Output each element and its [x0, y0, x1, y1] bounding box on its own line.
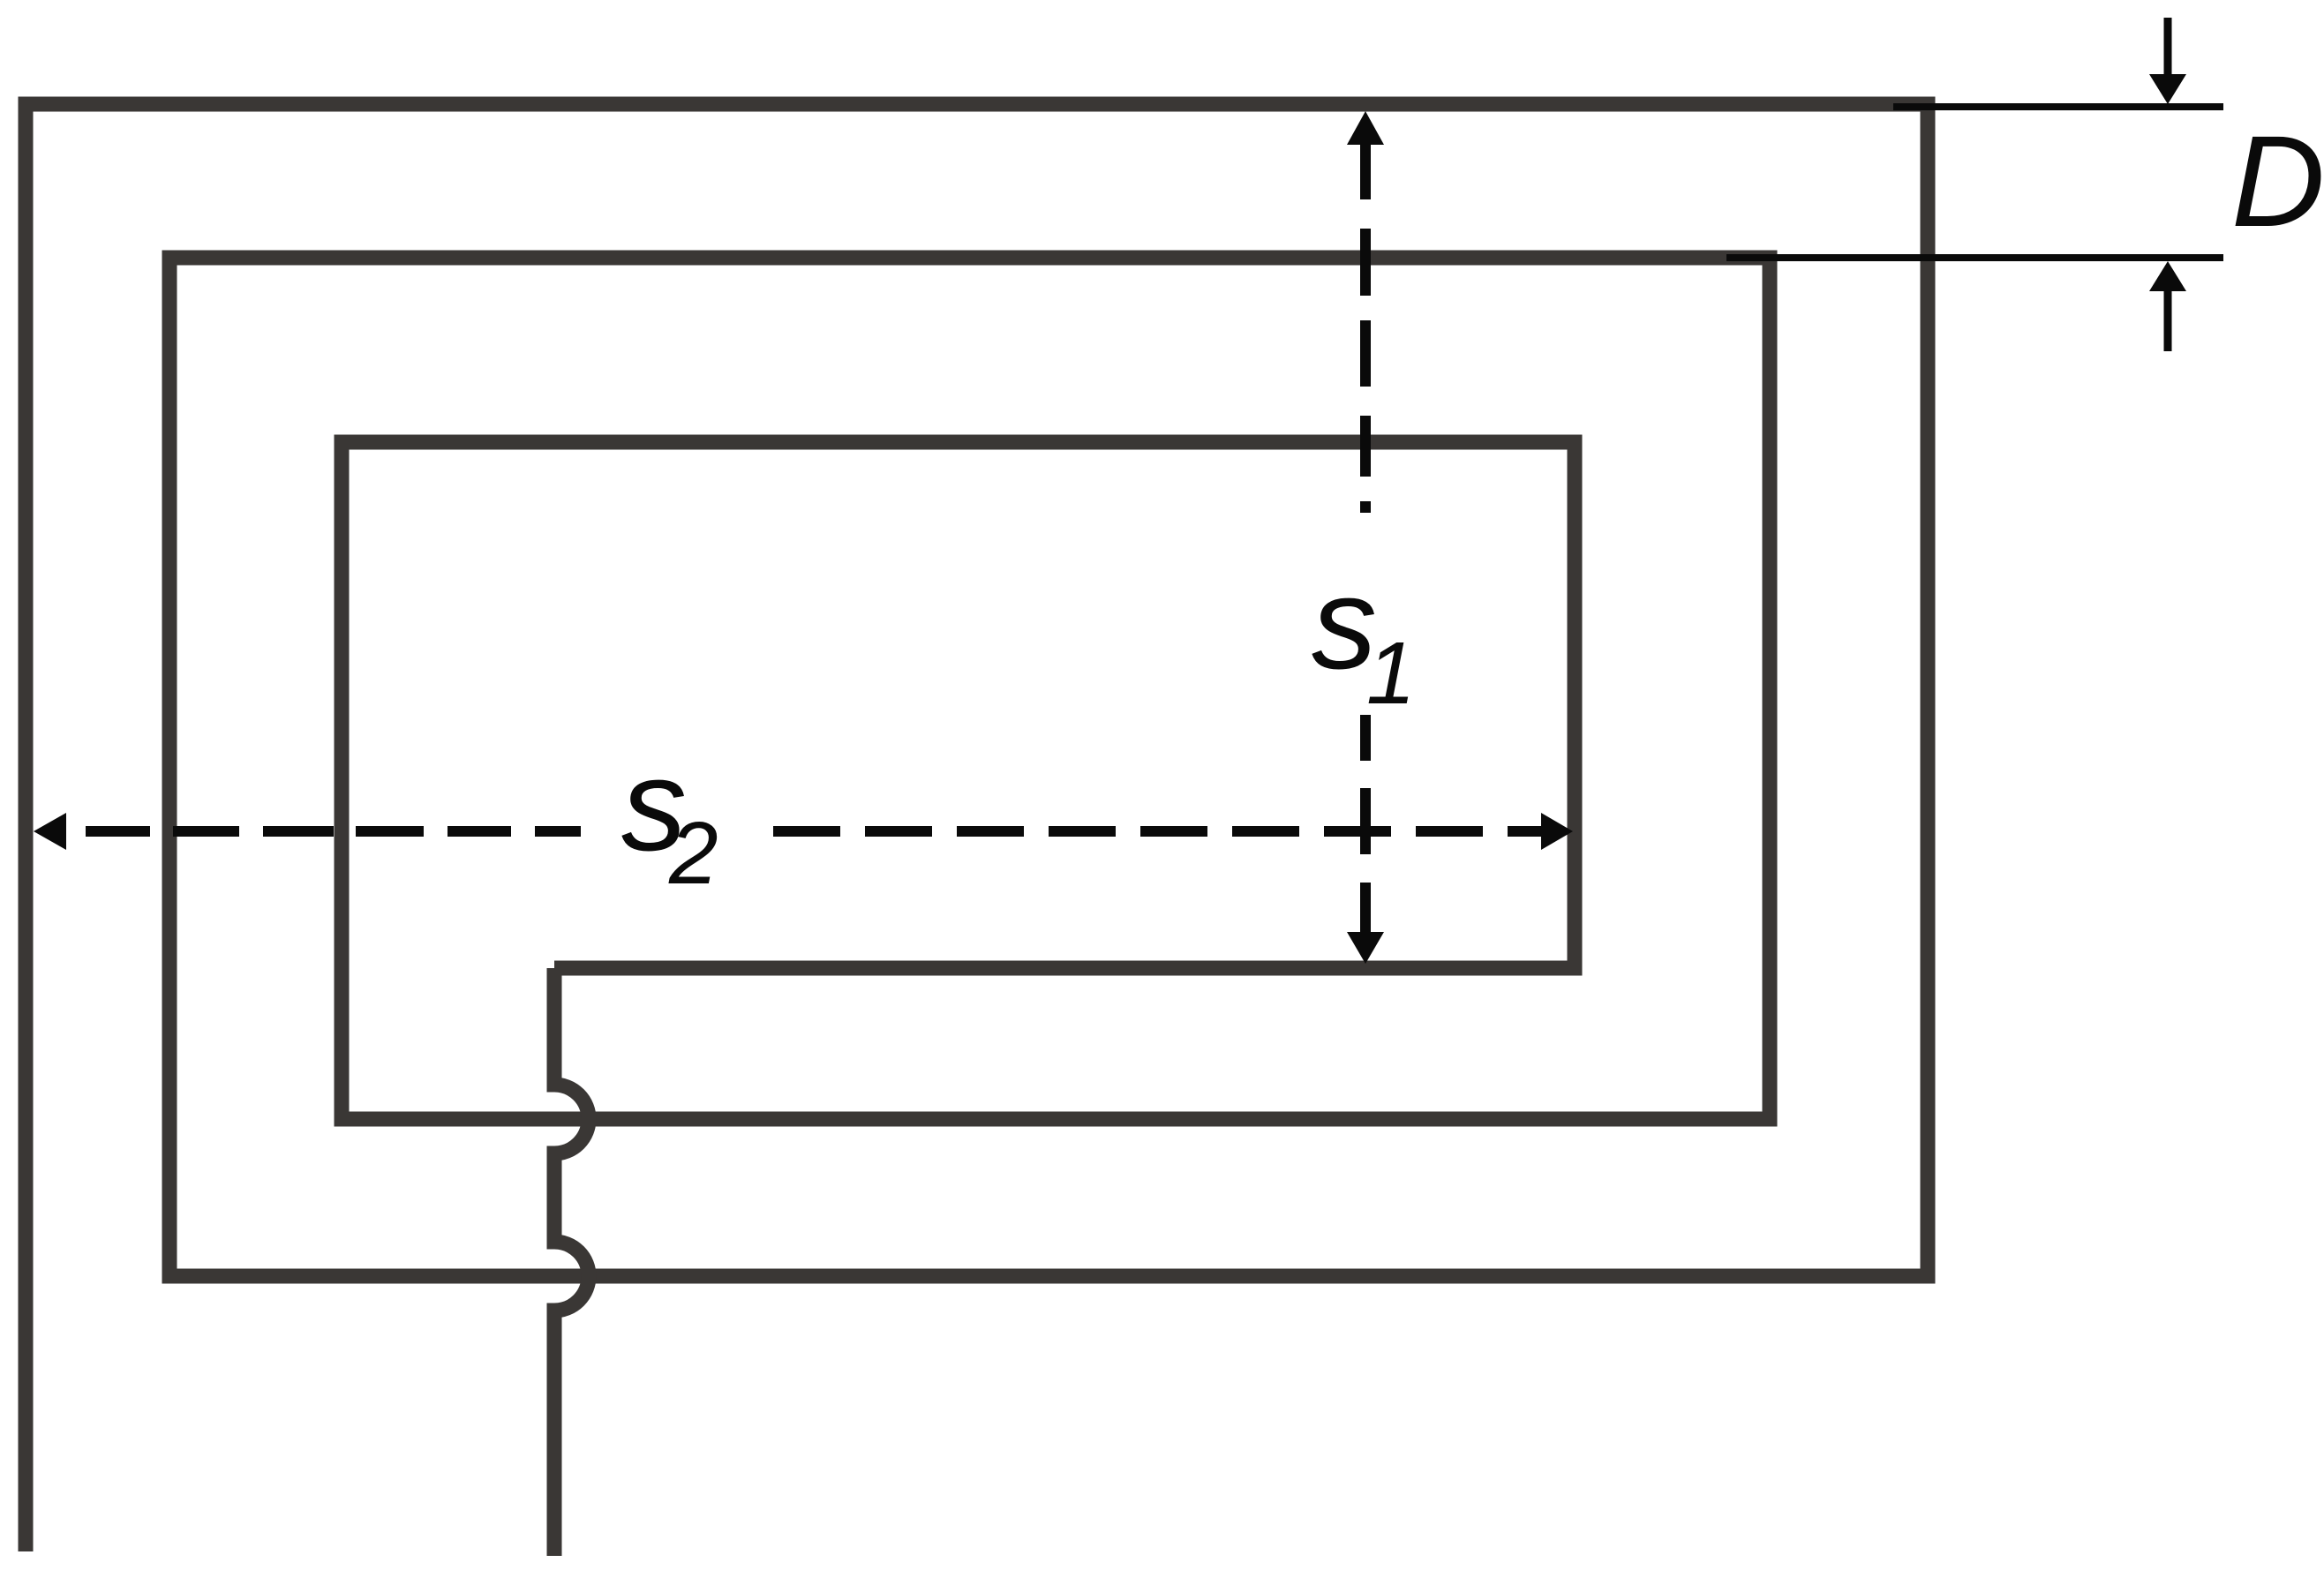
dimension s1: vertical dashed line — [1360, 144, 1371, 934]
dimension D: extension line at middle top edge — [1726, 254, 2223, 261]
svg-text:1: 1 — [1366, 624, 1416, 723]
s2 right arrowhead — [1541, 813, 1573, 850]
wire: coil L1 inner turn 3 (bottom, left, top, right sides) — [342, 442, 1575, 1119]
wire: inner lead of coil L1 with two crossover hops over turns 2 and 1 — [554, 968, 589, 1556]
dimension D: extension line at outer top edge — [1893, 103, 2223, 110]
dimension s2: horizontal dashed line — [86, 826, 1543, 837]
s1 up arrowhead — [1347, 111, 1384, 145]
wire: outer lead of coil L1 (bottom-left terminal) — [19, 794, 34, 1551]
wire: coil L1 outer turn 1 (left, top, right sides) — [26, 104, 1928, 1276]
s2 left arrowhead — [34, 813, 66, 850]
svg-text:D: D — [2231, 109, 2324, 254]
dimension D: up arrow — [2164, 290, 2172, 351]
s1 down arrowhead — [1347, 932, 1384, 964]
dimension D: down arrow — [2164, 18, 2172, 76]
wire: coil L1 middle turn 2 (bottom, left, top, right sides) — [169, 258, 1770, 1276]
svg-text:2: 2 — [668, 804, 718, 903]
